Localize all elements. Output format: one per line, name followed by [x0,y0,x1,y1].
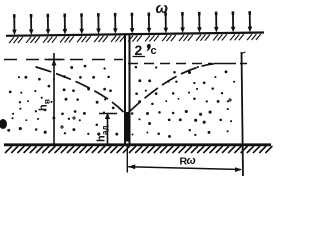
load arrow 14 [231,11,236,32]
scan artifact blob left edge [0,119,7,129]
dashed soil top line right [128,63,212,65]
svg-text:в: в [43,99,52,104]
wall thickness label 2 rc [135,42,157,58]
svg-text:c: c [151,45,157,57]
svg-text:ω: ω [187,155,196,167]
dimension h_v label [38,99,52,111]
load arrow 7 [113,13,118,34]
load arrow 8 [130,13,135,34]
load arrow 9 [147,12,152,33]
soil plus speck 2 [228,98,232,102]
dimension R omega left arrowhead [128,164,135,169]
svg-text:2: 2 [135,42,143,58]
load arrow 13 [214,12,219,33]
soil plus speck 3 [60,125,64,129]
dashed soil top line left [4,59,123,61]
slip curve left (dashed) [36,67,124,112]
wall extension line below ground [126,145,128,173]
svg-text:ад: ад [101,125,110,135]
load arrow 11 [180,12,185,33]
wall lower fill [125,112,131,142]
soil plus speck 1 [72,116,76,120]
svg-text:h: h [38,104,50,111]
load arrow 12 [197,12,202,33]
dashed soil top line right, solid end segment [214,63,247,65]
bottom bearing stratum line [4,143,271,146]
bottom stratum hatching [5,146,272,153]
load arrow 15 [247,11,252,32]
wall left face line [124,34,126,144]
load arrow 5 [79,13,84,34]
wall right face line [129,34,131,144]
load arrow 2 [29,14,34,35]
load arrow 3 [46,14,51,35]
load arrow 4 [62,14,67,35]
dimension h_v top arrowhead [52,59,57,66]
dimension R omega right arrowhead [235,167,242,172]
dimension h_ad line [107,114,109,144]
dimension h_ad label [96,125,110,142]
right boundary top hook [242,52,246,54]
dimension h_ad top tick [99,113,117,115]
wall label leader tick [133,56,146,58]
svg-text:ω: ω [156,0,169,17]
load arrow 6 [96,13,101,34]
svg-text:h: h [96,135,108,142]
load arrow 1 [12,14,17,35]
dimension h_v top crossing tick [45,59,65,61]
dimension R omega line [128,167,241,170]
soil stipple dots [7,65,235,138]
dimension h_ad top arrowhead [105,113,110,120]
right soil boundary line [242,52,244,176]
top ground assembly (tilted like scan) [6,11,264,43]
dimension R omega label backing [176,154,198,165]
dimension h_v line [53,53,55,144]
load arrow 10 [163,12,168,33]
dimension R omega label [180,155,196,168]
top ground hatching [9,34,261,43]
top ground surface line [6,33,264,36]
slip curve right (dashed) [128,64,214,113]
